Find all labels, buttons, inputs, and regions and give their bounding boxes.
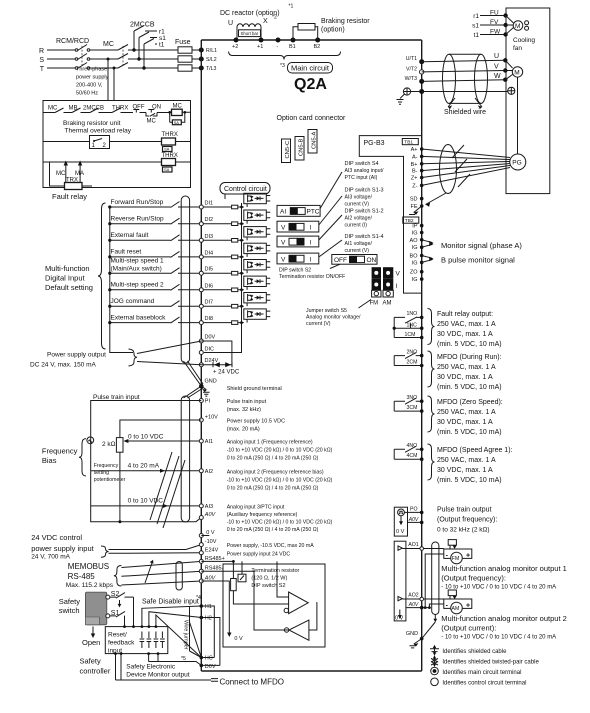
svg-text:DI1: DI1 (205, 201, 214, 207)
svg-text:IG: IG (412, 260, 418, 266)
svg-text:4CM: 4CM (407, 453, 418, 459)
svg-text:Pulse train output: Pulse train output (437, 507, 492, 514)
svg-text:(min. 5 VDC, 10 mA): (min. 5 VDC, 10 mA) (437, 341, 502, 348)
wire to -10V (109, 545, 202, 554)
svg-text:*4: *4 (196, 595, 201, 601)
svg-text:I: I (396, 283, 398, 290)
terminal IG2 (420, 245, 424, 249)
0V arrow in box (399, 610, 401, 617)
svg-text:AO: AO (410, 238, 419, 244)
SECTION: bottom left safety (59, 560, 325, 687)
DIP switch S2 OFF/ON (332, 255, 377, 265)
internal safe disable wires (201, 606, 220, 665)
DIP switch S1-3 V/I (277, 221, 319, 232)
FM minus return (425, 554, 444, 608)
SECTION: top-right motor (397, 8, 550, 194)
terminal H1 (200, 604, 204, 608)
fuse F2 (178, 56, 192, 62)
terminal AI3 (199, 504, 203, 508)
svg-text:*2: *2 (272, 15, 277, 21)
svg-text:CN5-B: CN5-B (299, 138, 305, 156)
svg-text:B+: B+ (411, 162, 418, 168)
svg-text:t1: t1 (159, 42, 165, 49)
terminal Z- (420, 184, 424, 188)
svg-text:B1: B1 (289, 44, 296, 50)
svg-text:0 to 20 mA (250 Ω) / 4 to 20 m: 0 to 20 mA (250 Ω) / 4 to 20 mA (250 Ω) (227, 527, 319, 533)
wire to D24V (137, 362, 201, 365)
svg-text:Forward Run/Stop: Forward Run/Stop (111, 199, 164, 206)
shield capsule analog (181, 396, 189, 522)
terminal E24V (199, 551, 203, 555)
svg-text:Control circuit: Control circuit (224, 186, 267, 193)
terminal U/T1 (419, 59, 424, 64)
svg-text:Jumper switch S5: Jumper switch S5 (306, 308, 347, 314)
svg-text:DI7: DI7 (205, 300, 214, 306)
svg-text:Pulse train input: Pulse train input (227, 399, 267, 405)
svg-text:DI6: DI6 (205, 283, 214, 289)
fuse F3 (178, 65, 192, 71)
svg-text:Fuse: Fuse (175, 39, 191, 46)
callout S1-3 (319, 196, 342, 225)
resistor braking (298, 24, 315, 31)
svg-text:A+: A+ (411, 147, 418, 153)
svg-text:2CM: 2CM (407, 360, 418, 366)
svg-text:24 VDC control: 24 VDC control (31, 533, 82, 542)
svg-text:D24V: D24V (205, 358, 219, 364)
svg-text:Wire jumper: Wire jumper (183, 620, 189, 650)
wire motor to PG (517, 77, 519, 154)
svg-text:Analog monitor voltage/: Analog monitor voltage/ (306, 315, 361, 321)
legend shielded cable (430, 645, 439, 656)
legend control circuit terminal (431, 678, 439, 686)
svg-text:W/T3: W/T3 (405, 76, 418, 82)
svg-text:AI: AI (280, 209, 286, 216)
wires termination (201, 561, 289, 630)
drive top bus (201, 39, 421, 41)
svg-text:Identifies shielded twisted-pa: Identifies shielded twisted-pair cable (442, 659, 539, 665)
terminal DI6 with optocoupler (199, 276, 270, 292)
svg-text:GND: GND (205, 379, 217, 385)
svg-text:Shielded wire: Shielded wire (444, 109, 486, 116)
svg-text:V: V (281, 256, 286, 263)
arrow MA (79, 164, 81, 183)
svg-text:SD: SD (410, 197, 418, 203)
potentiometer 2k (87, 437, 94, 444)
shielded wire capsule (443, 54, 488, 103)
svg-text:controller: controller (80, 667, 111, 676)
svg-text:0 V: 0 V (396, 529, 405, 535)
shield drains to GND (184, 361, 204, 398)
SECTION: middle terminals (31, 394, 332, 590)
svg-text:Power supply, -10.5 VDC, max 2: Power supply, -10.5 VDC, max 20 mA (227, 543, 315, 549)
svg-text:Shield ground terminal: Shield ground terminal (227, 386, 282, 392)
svg-text:4NO: 4NO (407, 443, 418, 449)
svg-text:Safety Electronic: Safety Electronic (126, 664, 176, 671)
svg-text:V: V (281, 239, 286, 246)
svg-text:2NO: 2NO (407, 349, 418, 355)
svg-text:3NO: 3NO (407, 395, 418, 401)
ground PE left (403, 88, 410, 95)
twisted pair capsule (440, 145, 457, 194)
wire RS485- (121, 571, 201, 576)
svg-text:1NC: 1NC (407, 322, 418, 328)
svg-text:Main circuit: Main circuit (291, 64, 330, 73)
terminal -10V (199, 543, 203, 547)
shield drain arrows (448, 98, 455, 107)
wiper arrow (125, 440, 131, 442)
jumper S5 FM/AM (370, 267, 401, 306)
shield capsule RS485 (176, 562, 182, 591)
brace memobus (114, 566, 122, 587)
svg-text:(Output frequency):: (Output frequency): (437, 517, 497, 524)
svg-text:Reset/: Reset/ (108, 632, 127, 639)
svg-text:I: I (310, 224, 312, 231)
svg-text:V/T2: V/T2 (406, 67, 417, 73)
AO block (394, 541, 406, 621)
motor M (505, 60, 512, 79)
svg-text:DC reactor (option): DC reactor (option) (220, 10, 280, 17)
svg-text:CN5-A: CN5-A (312, 131, 318, 149)
svg-text:*1: *1 (289, 4, 294, 10)
svg-text:250 VAC, max. 1 A: 250 VAC, max. 1 A (437, 364, 496, 371)
terminal DI3 with optocoupler (199, 227, 270, 243)
terminal RS485- (199, 569, 203, 573)
svg-text:JOG command: JOG command (111, 298, 155, 305)
svg-text:30 VDC, max. 1 A: 30 VDC, max. 1 A (437, 419, 493, 426)
termination resistor box (223, 564, 325, 647)
fan blades (525, 21, 529, 25)
svg-text:4 to 20 mA: 4 to 20 mA (128, 463, 160, 470)
svg-text:MC: MC (48, 106, 58, 112)
svg-text:Digital Input: Digital Input (45, 274, 86, 283)
svg-text:Safe Disable input: Safe Disable input (142, 599, 199, 606)
svg-text:+1: +1 (257, 44, 263, 50)
svg-text:-10 to +10 VDC (20 kΩ) / 0 to: -10 to +10 VDC (20 kΩ) / 0 to 10 VDC (20… (227, 520, 333, 526)
svg-text:Termination resistor ON/OFF: Termination resistor ON/OFF (279, 274, 345, 280)
svg-text:H1: H1 (205, 604, 212, 610)
svg-text:1NO: 1NO (407, 311, 418, 317)
svg-text:External fault: External fault (111, 232, 149, 239)
feedback contacts (140, 632, 152, 649)
brace digital inputs (98, 203, 106, 349)
SECTION: digital inputs (30, 183, 282, 523)
svg-text:Frequency: Frequency (94, 463, 119, 469)
drive bottom edge (201, 670, 421, 672)
terminal B- (420, 169, 424, 173)
wire PI loop (91, 401, 202, 522)
svg-text:D0V: D0V (205, 335, 216, 341)
svg-text:s1: s1 (472, 23, 479, 30)
svg-text:(Output frequency):: (Output frequency): (441, 574, 506, 583)
terminal +1 (259, 38, 264, 43)
svg-text:250 VAC, max. 1 A: 250 VAC, max. 1 A (437, 457, 496, 464)
shield capsule DI (181, 196, 189, 363)
svg-text:potentiometer: potentiometer (94, 477, 126, 483)
svg-text:M: M (514, 70, 519, 77)
brace power supply output (129, 349, 138, 366)
svg-text:DI3: DI3 (205, 234, 214, 240)
svg-text:GND: GND (406, 631, 418, 637)
terminal +2 (234, 38, 239, 43)
svg-text:DIP switch S1-4: DIP switch S1-4 (345, 234, 384, 240)
svg-text:DIP switch S2: DIP switch S2 (279, 268, 311, 274)
svg-text:SA: SA (164, 147, 170, 152)
0V arrow termination (201, 581, 229, 634)
svg-text:Reverse Run/Stop: Reverse Run/Stop (111, 216, 164, 223)
switch S1 (106, 614, 110, 618)
terminal A0V2 (199, 579, 203, 583)
svg-text:DIP switch S4: DIP switch S4 (345, 161, 379, 167)
connector CN5-B (295, 137, 304, 161)
svg-text:PG-B3: PG-B3 (364, 140, 385, 147)
svg-text:IG: IG (412, 231, 418, 237)
diodes +24VDC (201, 364, 232, 366)
encoder PG (510, 154, 526, 170)
svg-text:0 V: 0 V (234, 636, 243, 642)
svg-text:200-400 V,: 200-400 V, (76, 83, 103, 89)
svg-text:-: - (277, 44, 279, 50)
reset feedback box (105, 627, 168, 654)
svg-text:r1: r1 (473, 13, 479, 20)
svg-text:AO1: AO1 (408, 542, 418, 548)
svg-text:power supply: power supply (76, 75, 109, 81)
terminal HC (200, 656, 204, 660)
svg-text:FM: FM (452, 556, 460, 562)
svg-text:+ 24 VDC: + 24 VDC (213, 370, 240, 376)
SECTION: relay outputs (393, 309, 513, 537)
wire taps to braking box (108, 59, 114, 101)
terminal A0V3 (406, 607, 430, 609)
connect to MFDO (211, 679, 218, 682)
svg-text:2 kΩ: 2 kΩ (102, 441, 116, 448)
svg-text:AI2: AI2 (205, 469, 213, 475)
svg-text:50/60 Hz: 50/60 Hz (76, 91, 98, 97)
wire S phase (47, 58, 178, 60)
svg-text:Fault reset: Fault reset (111, 249, 142, 256)
svg-text:(120 Ω, 1/2 W): (120 Ω, 1/2 W) (251, 576, 287, 582)
svg-text:30 VDC, max. 1 A: 30 VDC, max. 1 A (437, 331, 493, 338)
cooling fan motor M (506, 16, 514, 35)
terminal IG3 (420, 261, 424, 265)
svg-text:ZO: ZO (410, 270, 418, 276)
wire FV (480, 24, 506, 26)
svg-text:ON: ON (367, 257, 377, 264)
svg-text:AI2 voltage/: AI2 voltage/ (345, 216, 373, 222)
svg-text:S/L2: S/L2 (206, 57, 217, 63)
svg-text:Multi-function analog monitor: Multi-function analog monitor output 1 (441, 564, 567, 573)
legend twisted pair (431, 655, 438, 667)
svg-text:AI3 analog input/: AI3 analog input/ (345, 168, 384, 174)
SECTION: top-middle DC reactor (201, 4, 421, 672)
svg-text:PTC: PTC (307, 209, 320, 216)
driver triangle (289, 592, 309, 614)
svg-text:IG: IG (412, 245, 418, 251)
SECTION: top-left input (39, 22, 217, 101)
encoder wires (422, 149, 510, 185)
svg-text:Analog input 2 (Frequency refe: Analog input 2 (Frequency reference bias… (227, 470, 324, 476)
wires to H1 H2 (142, 606, 201, 658)
svg-text:U: U (494, 53, 499, 60)
terminal PI (199, 399, 203, 403)
svg-text:-10V: -10V (205, 539, 217, 545)
callout S1-4 (319, 240, 342, 257)
ground PE right (508, 87, 515, 94)
svg-text:MC: MC (56, 171, 66, 177)
svg-text:MFDO (Speed Agree 1):: MFDO (Speed Agree 1): (437, 447, 513, 454)
svg-text:HC: HC (205, 656, 213, 662)
terminal B2 (315, 38, 320, 43)
FM/AM shield capsule (432, 542, 439, 615)
terminal AI2 (199, 469, 203, 473)
svg-text:FE: FE (410, 204, 417, 210)
svg-text:t1: t1 (474, 32, 480, 39)
svg-text:Max. 115.2 kbps: Max. 115.2 kbps (66, 582, 114, 589)
SECTION: analog monitor + legend (394, 540, 567, 687)
svg-text:power supply input: power supply input (31, 544, 94, 553)
connector CN5-A (308, 130, 317, 154)
relay 4NO/4CM (394, 446, 422, 459)
meter AM (444, 599, 472, 608)
terminal BO (420, 254, 424, 258)
relay 2NO/2CM (394, 353, 422, 366)
svg-text:(min. 5 VDC, 10 mA): (min. 5 VDC, 10 mA) (437, 384, 502, 391)
connector CN5-C (282, 139, 291, 163)
svg-text:Identifies shielded cable: Identifies shielded cable (442, 649, 507, 655)
svg-text:MA: MA (75, 171, 84, 177)
wire fuse to terminals (192, 50, 201, 68)
svg-text:AM: AM (383, 301, 392, 307)
receiver triangle (289, 620, 309, 640)
callout S1-2 (319, 215, 342, 240)
svg-text:U/T1: U/T1 (406, 56, 417, 62)
AM bridge component (448, 590, 456, 596)
svg-text:H2: H2 (205, 616, 212, 622)
svg-text:DIP switch S1-3: DIP switch S1-3 (345, 188, 384, 194)
wire T phase (47, 67, 178, 69)
main circuit label (288, 63, 333, 74)
svg-text:Monitor signal (phase A): Monitor signal (phase A) (441, 241, 522, 250)
SECTION: braking box (43, 101, 191, 202)
svg-text:S: S (39, 57, 44, 64)
svg-text:Power supply output: Power supply output (47, 352, 106, 359)
svg-text:W: W (494, 73, 501, 80)
svg-text:*3: *3 (280, 63, 285, 69)
svg-text:-10 to +10 VDC (20 kΩ) / 0 to: -10 to +10 VDC (20 kΩ) / 0 to 10 VDC (20… (227, 448, 333, 454)
thermal contact 1-2 (90, 136, 110, 149)
svg-text:0 to 10 VDC: 0 to 10 VDC (128, 434, 164, 441)
svg-text:current (V): current (V) (306, 321, 331, 327)
svg-text:T: T (40, 66, 45, 73)
svg-text:+: + (466, 602, 470, 609)
svg-text:Identifies main circuit termin: Identifies main circuit terminal (442, 670, 521, 676)
terminal DIC (199, 351, 203, 355)
monitor A arrows (422, 240, 432, 247)
wire A0V2 (121, 581, 201, 585)
wire FW (480, 34, 506, 36)
svg-text:E24V: E24V (205, 547, 219, 553)
relay fault 1NO/1NC/1CM (394, 317, 422, 338)
svg-text:V: V (494, 64, 499, 71)
relay 3NO/3CM (394, 398, 422, 411)
svg-text:Fault relay: Fault relay (52, 192, 87, 201)
wire +10V to pot (120, 420, 201, 438)
svg-text:Braking resistor: Braking resistor (321, 18, 370, 25)
svg-text:A0V: A0V (204, 512, 217, 518)
surge absorber SA3 (163, 167, 173, 172)
svg-text:PI: PI (205, 399, 211, 405)
svg-text:M: M (515, 23, 520, 30)
twist slash (145, 562, 152, 583)
svg-text:AI1 voltage/: AI1 voltage/ (345, 241, 373, 247)
svg-text:Three-phase: Three-phase (76, 67, 107, 73)
SECTION: dip switches (277, 161, 401, 327)
terminal IP (420, 224, 424, 228)
wire R phase (47, 49, 178, 51)
terminal DI4 with optocoupler (199, 243, 270, 259)
svg-text:Fault relay output:: Fault relay output: (437, 311, 493, 318)
svg-text:PTC input (AI): PTC input (AI) (345, 175, 378, 181)
PG-B3 card outline (359, 136, 421, 294)
svg-text:Multi-step speed 2: Multi-step speed 2 (111, 282, 164, 289)
terminal AI1 (199, 439, 203, 443)
svg-text:DI5: DI5 (205, 267, 214, 273)
svg-text:A0V: A0V (408, 602, 419, 608)
svg-text:30 VDC, max. 1 A: 30 VDC, max. 1 A (437, 467, 493, 474)
terminal B+ (420, 162, 424, 166)
svg-text:Default setting: Default setting (45, 283, 93, 292)
svg-text:(max. 32 kHz): (max. 32 kHz) (227, 407, 261, 413)
svg-text:V: V (396, 271, 401, 278)
callout S4 (320, 172, 342, 209)
svg-text:DI8: DI8 (205, 316, 214, 322)
svg-text:THRX: THRX (162, 132, 178, 138)
svg-text:0 to 10 VDC: 0 to 10 VDC (128, 498, 164, 505)
svg-text:Power supply input 24 VDC: Power supply input 24 VDC (227, 552, 291, 558)
svg-text:DIP switch S1-2: DIP switch S1-2 (345, 209, 384, 215)
svg-text:Analog input 1 (Frequency refe: Analog input 1 (Frequency reference) (227, 440, 313, 446)
svg-text:External baseblock: External baseblock (111, 315, 167, 322)
left edge drops (50, 162, 93, 186)
drive right edge (421, 40, 423, 671)
svg-text:Identifies control circuit ter: Identifies control circuit terminal (442, 680, 526, 686)
SECTION: pgb3 (359, 136, 522, 294)
svg-text:A-: A- (412, 154, 418, 160)
FM bridge component (448, 540, 456, 546)
DIP switch S4 AI/PTC (277, 205, 320, 216)
terminal FE (420, 204, 424, 208)
monitor B arrows (422, 256, 432, 263)
svg-text:Safety: Safety (59, 597, 81, 606)
terminal A- (420, 155, 424, 159)
svg-text:current (I): current (I) (345, 223, 368, 229)
svg-text:Termination resistor: Termination resistor (251, 568, 299, 574)
svg-text:3CM: 3CM (407, 405, 418, 411)
svg-text:FW: FW (490, 29, 501, 36)
AM minus return (429, 604, 443, 608)
svg-text:AI1: AI1 (205, 439, 213, 445)
svg-text:FU: FU (490, 10, 499, 17)
svg-text:Z-: Z- (412, 183, 417, 189)
svg-text:-10 to +10 VDC (20 kΩ) / 0 to: -10 to +10 VDC (20 kΩ) / 0 to 10 VDC (20… (227, 478, 333, 484)
callout S2 termination (330, 264, 340, 268)
svg-text:feedback: feedback (108, 640, 135, 647)
terminal +10V (199, 418, 203, 422)
amp AO2 (398, 596, 402, 600)
terminal V/T2 (420, 70, 424, 74)
ground FE (414, 206, 422, 213)
callout S5 (359, 300, 372, 309)
short bar (239, 30, 261, 37)
